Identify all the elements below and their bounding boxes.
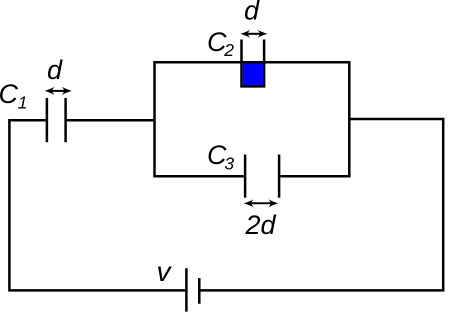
- svg-text:1: 1: [18, 93, 28, 113]
- svg-text:d: d: [47, 55, 63, 85]
- svg-text:d: d: [244, 0, 260, 26]
- svg-text:2: 2: [223, 40, 234, 60]
- svg-text:3: 3: [224, 153, 234, 173]
- svg-text:2d: 2d: [245, 210, 277, 240]
- svg-text:v: v: [157, 256, 173, 287]
- svg-text:C: C: [0, 79, 19, 109]
